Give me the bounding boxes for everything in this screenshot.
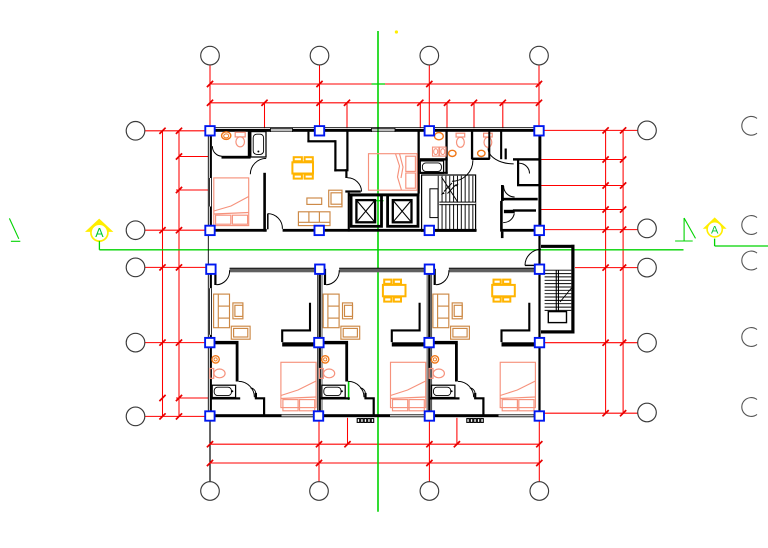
left wall top block (210, 131, 212, 178)
unit entry step wall (475, 393, 483, 415)
fire stair treads (545, 270, 572, 310)
wc room 2 walls (471, 131, 473, 160)
elevator shaft 2 (388, 195, 418, 226)
top wall thick segments (208, 129, 270, 132)
left dimension chain verticals (162, 131, 164, 416)
unit nook wall (282, 303, 310, 342)
unit bathroom right wall (236, 344, 239, 382)
unit toilet (320, 369, 335, 379)
unit nook wall (502, 303, 530, 342)
stair break line (442, 177, 459, 203)
apt2 bedroom left wall (346, 131, 348, 171)
top dimension line 1 (210, 83, 541, 85)
apt2 bathroom walls (420, 158, 448, 160)
bottom wall window (390, 414, 425, 416)
wc room 3 toilet (484, 133, 493, 147)
apt1 armchair (329, 190, 342, 207)
unit bathroom mid wall (428, 341, 458, 344)
unit nook wall (392, 303, 420, 342)
unit bed (500, 362, 535, 411)
apt2 bed (369, 154, 418, 191)
apt1 coffee table (307, 198, 322, 204)
apt1 living door (267, 214, 269, 230)
hall top door jambs (500, 131, 502, 159)
right rooms walls (513, 158, 541, 160)
apt2 toilet (435, 133, 444, 140)
grid bubbles left column (126, 122, 145, 141)
unit bath door arc (239, 381, 255, 397)
unit under-bath wall (430, 397, 460, 399)
top dimension line 2 (210, 102, 539, 104)
unit sink (212, 356, 219, 363)
unit bathroom mid wall (318, 341, 348, 344)
unit bedroom north wall (502, 342, 543, 346)
green tick at elevator (373, 200, 384, 202)
unit armchair (233, 303, 243, 319)
apt1 sofa (298, 190, 342, 225)
unit entry door (324, 269, 326, 285)
unit sink (322, 356, 329, 363)
dimension framework red (145, 65, 638, 482)
unit bedroom north wall (392, 342, 433, 346)
fire stair rail (556, 270, 557, 311)
right wall top block (538, 131, 540, 232)
unit bathtub (212, 385, 235, 397)
unit sofa (433, 294, 470, 339)
grid bubbles top row (201, 46, 220, 65)
entry niche walls (307, 132, 309, 143)
storage boxes 2 (467, 419, 470, 423)
unit toilet (429, 369, 444, 379)
elevator lobby west wall (348, 193, 350, 232)
blue column markers (205, 126, 214, 135)
lobby wall (345, 190, 361, 192)
storage boxes 1 (357, 419, 360, 423)
stair eye (430, 189, 438, 218)
unit entry step wall (366, 393, 374, 415)
right dimension chain (605, 130, 607, 412)
unit bathtub (432, 385, 455, 397)
apt1 bedroom wall (263, 173, 266, 232)
unit separating wall (428, 269, 430, 416)
stair rail (439, 203, 475, 205)
unit under-bath wall (320, 397, 350, 399)
apt1 bathroom door (212, 146, 221, 156)
unit bathroom right wall (345, 344, 348, 382)
unit bathtub (322, 385, 345, 397)
main stair box (422, 175, 476, 231)
unit sofa (214, 294, 251, 339)
stair treads (438, 176, 473, 231)
apt2 bedroom right wall (418, 131, 420, 194)
top wall window 1 (271, 128, 293, 130)
bath3 right wall (488, 131, 490, 159)
unit bathroom right wall (455, 344, 458, 382)
unit sink (431, 356, 438, 363)
left section cut symbol (9, 218, 18, 238)
elevator wall top (348, 193, 419, 196)
fire stair box (541, 245, 575, 248)
lower block right wall (538, 232, 540, 417)
right rooms door arcs (519, 163, 529, 173)
unit2 dining table (383, 280, 406, 302)
green tick on dim line (372, 83, 386, 85)
unit bathroom mid wall (209, 341, 239, 344)
unit armchair (452, 303, 462, 319)
apt1 toilet (222, 132, 231, 140)
unit entry door (214, 269, 216, 285)
section marker A left (85, 219, 113, 250)
apt1 bedroom door (250, 158, 266, 174)
left intermediate dims (179, 156, 208, 158)
vestibule stub wall (501, 232, 504, 239)
bottom wall window (499, 414, 534, 416)
top grid extension lines (209, 65, 211, 128)
wc2 hall door arc (452, 160, 473, 181)
corridor south wall gray (230, 268, 540, 272)
apt1 bathtub (251, 132, 266, 157)
svg-text:A: A (95, 226, 104, 240)
lower block left wall (210, 269, 212, 288)
hall mushroom arc (488, 148, 514, 164)
fire stair door (525, 264, 541, 266)
unit coffee table (231, 326, 250, 339)
unit bath door arc (458, 381, 474, 397)
south wall top block (208, 229, 266, 232)
apt1 dining table (292, 157, 313, 178)
top dim2 witness lines (264, 103, 266, 128)
unit bath door arc (348, 381, 364, 397)
svg-text:A: A (711, 224, 719, 236)
unit coffee table (341, 326, 360, 339)
apt2 entry door (348, 178, 362, 192)
elevator shaft 1 (351, 195, 381, 226)
unit under-bath wall (211, 397, 241, 399)
bottom exterior wall (208, 414, 281, 417)
bottom wall window (282, 414, 317, 416)
unit armchair (343, 303, 353, 319)
green axis right segment (714, 239, 716, 246)
green horizontal axis (99, 249, 683, 251)
fire stair landing (548, 312, 566, 323)
left row lines (145, 130, 208, 132)
apt1 bathroom walls (222, 156, 251, 159)
hall mushroom lower arc (452, 181, 479, 203)
apt2 vanity basins (433, 147, 447, 156)
unit entry step wall (256, 393, 264, 415)
unit toilet (210, 369, 225, 379)
right room door leaf (504, 210, 515, 213)
grid bubbles right edge column (742, 116, 757, 135)
bottom dimension lines (318, 418, 320, 482)
wc3 bottom wall (472, 158, 490, 160)
wc room 2 toilet (456, 133, 465, 147)
unit bedroom north wall (282, 342, 323, 346)
unit3 dining table (492, 280, 515, 302)
apt2 bathtub (420, 161, 443, 173)
yellow dot (395, 30, 398, 33)
top block outer face line (208, 127, 540, 129)
unit bed (391, 362, 426, 411)
unit separating wall (319, 269, 321, 416)
apt1 wc (235, 132, 245, 137)
unit sofa (323, 294, 359, 339)
unit entry door (434, 269, 436, 285)
right section cut symbol (683, 218, 685, 241)
fire stair arrow (560, 288, 572, 302)
apt1 bed (214, 178, 249, 226)
unit coffee table (451, 326, 470, 339)
grid bubbles right inner column (638, 121, 657, 140)
green door leaf unit2 (348, 381, 350, 400)
unit bed (281, 362, 316, 411)
green vertical axis (377, 31, 379, 512)
top wall window 2 (372, 128, 396, 130)
grid bubbles bottom row (201, 482, 220, 501)
section marker A right (703, 217, 727, 237)
